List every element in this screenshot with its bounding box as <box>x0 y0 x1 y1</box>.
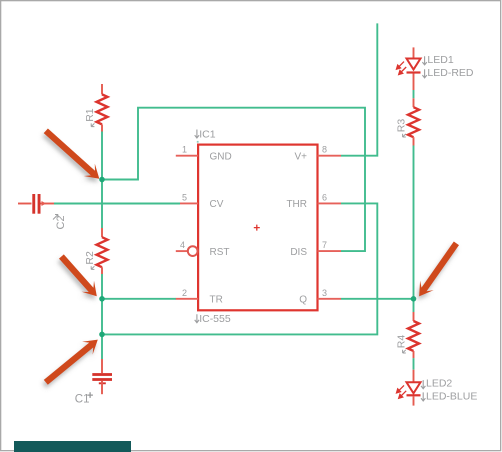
svg-text:5: 5 <box>182 192 187 202</box>
svg-text:DIS: DIS <box>290 247 307 258</box>
label R2 <box>84 251 96 269</box>
junction node D (Q output) <box>411 296 417 302</box>
wire right column R3 down through Q junction <box>413 146 415 313</box>
svg-text:IC-555: IC-555 <box>199 313 231 325</box>
wire left column segment junction A to R2 <box>101 180 103 229</box>
IC origin speck <box>197 141 199 143</box>
IC1 origin cross <box>254 225 260 231</box>
LED D1 (LED1) <box>397 47 421 90</box>
resistor R4 <box>408 312 419 358</box>
capacitor C1 (polarized) <box>92 359 112 394</box>
wire net CV: C2 to CV pin stub <box>54 203 180 205</box>
resistor R2 <box>97 228 108 274</box>
svg-text:C1: C1 <box>75 394 90 406</box>
svg-text:CV: CV <box>210 199 224 210</box>
svg-text:RST: RST <box>210 247 230 258</box>
wire net Q: pin 3 to right junction <box>341 298 414 300</box>
annotation arrow 3 (to node C) <box>44 340 98 385</box>
label R3 <box>396 119 408 137</box>
label C2 <box>53 215 67 230</box>
LED D2 (LED2) <box>397 370 421 406</box>
op-amp/timer IC1 body <box>198 145 317 311</box>
annotation arrow 2 (to node B) <box>59 254 97 296</box>
svg-text:R1: R1 <box>84 108 96 122</box>
capacitor C2 <box>18 194 54 214</box>
svg-text:4: 4 <box>180 240 185 250</box>
svg-text:LED-BLUE: LED-BLUE <box>426 391 477 403</box>
svg-text:LED1: LED1 <box>427 54 453 66</box>
svg-text:LED-RED: LED-RED <box>427 67 474 79</box>
label LED-RED <box>422 67 474 79</box>
svg-text:R3: R3 <box>396 119 408 133</box>
svg-text:V+: V+ <box>294 152 307 163</box>
pin 7 DIS stub <box>318 250 342 252</box>
svg-text:1: 1 <box>182 145 187 155</box>
svg-text:C2: C2 <box>55 215 67 229</box>
wire left column segment R2 to junction B to junction C to C1 <box>101 274 103 359</box>
svg-text:6: 6 <box>322 192 327 202</box>
wire net V+: pin 8 right then up <box>341 23 377 155</box>
label C1 <box>75 392 93 405</box>
label LED1 <box>422 54 453 66</box>
svg-text:THR: THR <box>286 199 307 210</box>
wire net TR: junction to TR pin stub <box>102 298 176 300</box>
pin 4 RST stub with inversion circle <box>176 246 198 256</box>
label R4 <box>396 335 408 353</box>
resistor R3 <box>408 98 419 145</box>
label IC-555 <box>195 313 231 325</box>
wire left column segment R1 to junction A <box>101 132 103 180</box>
svg-text:R4: R4 <box>396 335 408 349</box>
svg-text:Q: Q <box>299 295 307 306</box>
label R1 <box>84 108 96 126</box>
junction node B (TR) <box>99 296 105 302</box>
pin 6 THR stub <box>318 202 342 204</box>
junction node A (R1/R2) <box>99 177 105 183</box>
resistor R1 <box>97 84 108 132</box>
pin 1 GND stub <box>176 155 198 157</box>
wire net DIS: junction A right, up, across top, down to DIS pin <box>102 108 365 251</box>
label IC1 <box>195 129 216 141</box>
svg-text:8: 8 <box>322 145 327 155</box>
wire right column R4 to LED2 <box>413 358 415 370</box>
svg-text:7: 7 <box>322 240 327 250</box>
pin 3 Q stub <box>318 298 342 300</box>
annotation arrow 4 (to node D) <box>419 242 459 297</box>
svg-text:TR: TR <box>210 295 223 306</box>
svg-text:GND: GND <box>210 152 232 163</box>
pin 8 V+ stub <box>318 155 342 157</box>
svg-text:2: 2 <box>182 288 187 298</box>
svg-text:LED2: LED2 <box>426 378 452 390</box>
svg-text:IC1: IC1 <box>199 129 216 141</box>
wire net THR: pin 6 right, down, across to junction C <box>102 203 377 334</box>
label LED-BLUE <box>421 391 477 403</box>
pin 2 TR stub <box>176 298 198 300</box>
teal status bar (hidden-alpha artifact present in raw RGB of reference) <box>14 441 131 452</box>
svg-text:R2: R2 <box>84 251 96 265</box>
wire right column LED1 to R3 <box>413 90 415 98</box>
annotation arrow 1 (to node A) <box>44 129 100 179</box>
pin 5 CV stub <box>180 202 198 204</box>
svg-text:3: 3 <box>322 288 327 298</box>
label LED2 <box>421 378 452 390</box>
junction node C (THR/C1) <box>99 332 105 338</box>
